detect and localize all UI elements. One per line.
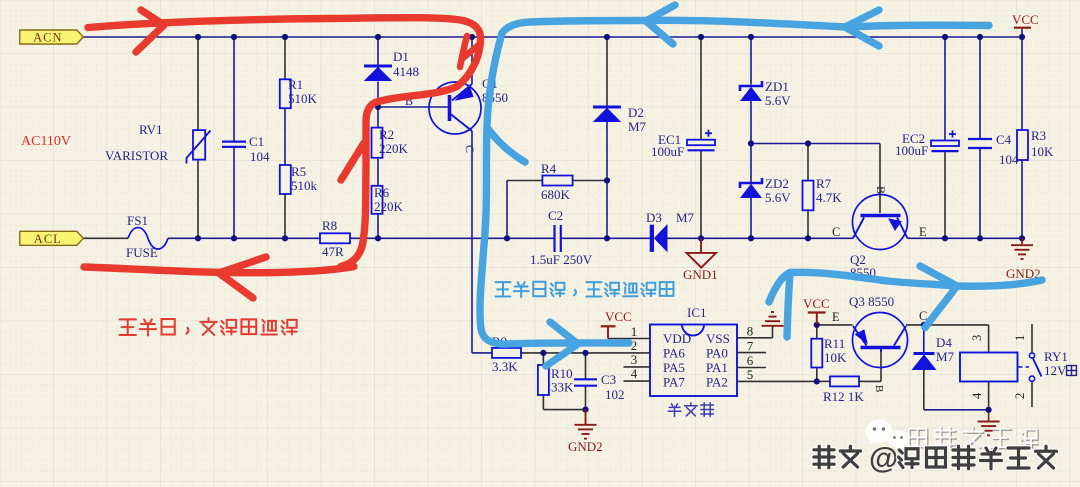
svg-text:220K: 220K	[379, 141, 409, 156]
svg-text:R1: R1	[288, 77, 303, 92]
svg-text:PA7: PA7	[663, 375, 685, 390]
svg-text:33K: 33K	[551, 380, 574, 395]
svg-text:12V: 12V	[1044, 363, 1067, 378]
svg-text:C4: C4	[996, 132, 1012, 147]
svg-text:680K: 680K	[541, 187, 571, 202]
svg-text:FUSE: FUSE	[126, 245, 158, 260]
svg-text:D4: D4	[936, 335, 952, 350]
svg-text:RY1: RY1	[1044, 349, 1068, 364]
svg-text:D3: D3	[646, 210, 662, 225]
svg-text:VARISTOR: VARISTOR	[105, 148, 168, 163]
svg-text:10K: 10K	[1031, 144, 1054, 159]
svg-text:4: 4	[970, 392, 984, 399]
svg-text:PA5: PA5	[663, 360, 685, 375]
svg-text:3.3K: 3.3K	[492, 359, 518, 374]
svg-text:220K: 220K	[374, 199, 404, 214]
svg-text:1.5uF 250V: 1.5uF 250V	[530, 252, 593, 267]
svg-text:E: E	[832, 310, 840, 324]
svg-text:VCC: VCC	[605, 309, 632, 324]
svg-text:E: E	[919, 225, 927, 239]
svg-text:104: 104	[250, 149, 270, 164]
svg-text:5.6V: 5.6V	[765, 93, 791, 108]
svg-text:3: 3	[970, 335, 984, 341]
svg-text:R12 1K: R12 1K	[823, 389, 864, 404]
svg-text:C: C	[832, 225, 840, 239]
svg-text:R4: R4	[541, 161, 557, 176]
svg-text:102: 102	[605, 387, 625, 402]
svg-text:B: B	[873, 385, 885, 392]
svg-text:VCC: VCC	[1012, 12, 1039, 27]
svg-text:M7: M7	[628, 119, 647, 134]
svg-text:R11: R11	[824, 336, 845, 351]
svg-text:7: 7	[747, 338, 754, 353]
svg-text:R8: R8	[322, 218, 337, 233]
svg-text:1: 1	[631, 324, 638, 339]
svg-text:5.6V: 5.6V	[765, 190, 791, 205]
svg-text:RV1: RV1	[139, 122, 163, 137]
svg-text:D2: D2	[628, 105, 644, 120]
svg-text:1: 1	[1013, 335, 1027, 341]
svg-text:8: 8	[747, 324, 754, 339]
svg-text:104: 104	[999, 152, 1019, 167]
svg-text:ZD2: ZD2	[765, 176, 789, 191]
svg-text:C: C	[463, 145, 477, 153]
svg-text:GND2: GND2	[568, 439, 603, 454]
svg-text:VCC: VCC	[803, 296, 830, 311]
svg-text:4.7K: 4.7K	[816, 190, 842, 205]
svg-text:C2: C2	[548, 208, 563, 223]
svg-text:AC110V: AC110V	[21, 134, 71, 149]
svg-text:R7: R7	[816, 176, 832, 191]
svg-text:R3: R3	[1031, 128, 1046, 143]
svg-text:FS1: FS1	[127, 213, 148, 228]
svg-text:ACN: ACN	[33, 31, 62, 45]
svg-text:R6: R6	[374, 185, 390, 200]
svg-text:GND1: GND1	[683, 267, 718, 282]
svg-text:PA2: PA2	[706, 375, 728, 390]
svg-text:100uF: 100uF	[651, 144, 684, 159]
svg-text:2: 2	[1013, 393, 1027, 399]
svg-text:4: 4	[631, 366, 638, 381]
svg-text:ZD1: ZD1	[765, 79, 789, 94]
svg-text:C3: C3	[601, 372, 616, 387]
svg-text:510K: 510K	[288, 91, 318, 106]
svg-text:B: B	[874, 186, 888, 194]
svg-text:Q3 8550: Q3 8550	[849, 294, 894, 309]
svg-text:M7: M7	[936, 349, 955, 364]
svg-text:4148: 4148	[393, 64, 419, 79]
svg-text:PA6: PA6	[663, 346, 685, 361]
svg-text:D1: D1	[393, 49, 409, 64]
svg-text:ACL: ACL	[34, 232, 62, 246]
svg-text:C1: C1	[249, 134, 264, 149]
svg-text:M7: M7	[676, 210, 695, 225]
svg-text:@: @	[869, 442, 898, 475]
svg-text:VSS: VSS	[706, 331, 730, 346]
svg-text:510k: 510k	[291, 178, 318, 193]
svg-text:R5: R5	[291, 164, 306, 179]
svg-text:VDD: VDD	[663, 331, 691, 346]
svg-text:6: 6	[747, 353, 754, 368]
svg-text:PA0: PA0	[706, 346, 728, 361]
svg-text:3: 3	[631, 352, 638, 367]
svg-text:100uF: 100uF	[895, 143, 928, 158]
svg-text:IC1: IC1	[687, 305, 707, 320]
svg-text:5: 5	[747, 367, 754, 382]
svg-text:47R: 47R	[322, 244, 344, 259]
svg-text:PA1: PA1	[706, 360, 728, 375]
svg-text:R2: R2	[379, 127, 394, 142]
svg-text:10K: 10K	[824, 350, 847, 365]
